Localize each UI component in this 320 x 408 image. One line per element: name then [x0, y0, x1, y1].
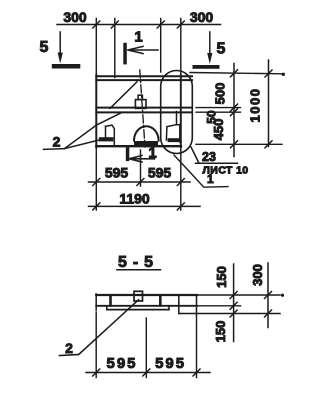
- svg-text:150: 150: [214, 266, 229, 288]
- svg-text:595: 595: [105, 165, 129, 181]
- svg-text:1: 1: [207, 172, 214, 186]
- svg-text:300: 300: [250, 264, 265, 286]
- svg-text:1: 1: [134, 29, 142, 46]
- svg-text:1190: 1190: [119, 191, 150, 207]
- svg-text:300: 300: [63, 9, 87, 25]
- svg-text:595: 595: [155, 355, 186, 372]
- svg-text:5: 5: [217, 41, 226, 58]
- svg-text:595: 595: [148, 165, 172, 181]
- svg-text:5: 5: [40, 39, 49, 56]
- svg-text:450: 450: [211, 119, 226, 141]
- svg-text:5-5: 5-5: [118, 254, 159, 271]
- svg-text:2: 2: [65, 340, 73, 356]
- svg-text:595: 595: [106, 355, 137, 372]
- svg-text:1000: 1000: [248, 88, 263, 123]
- svg-text:2: 2: [53, 133, 61, 149]
- svg-text:150: 150: [213, 321, 228, 343]
- svg-text:300: 300: [190, 9, 214, 25]
- svg-text:23: 23: [202, 150, 216, 164]
- svg-text:500: 500: [213, 83, 228, 105]
